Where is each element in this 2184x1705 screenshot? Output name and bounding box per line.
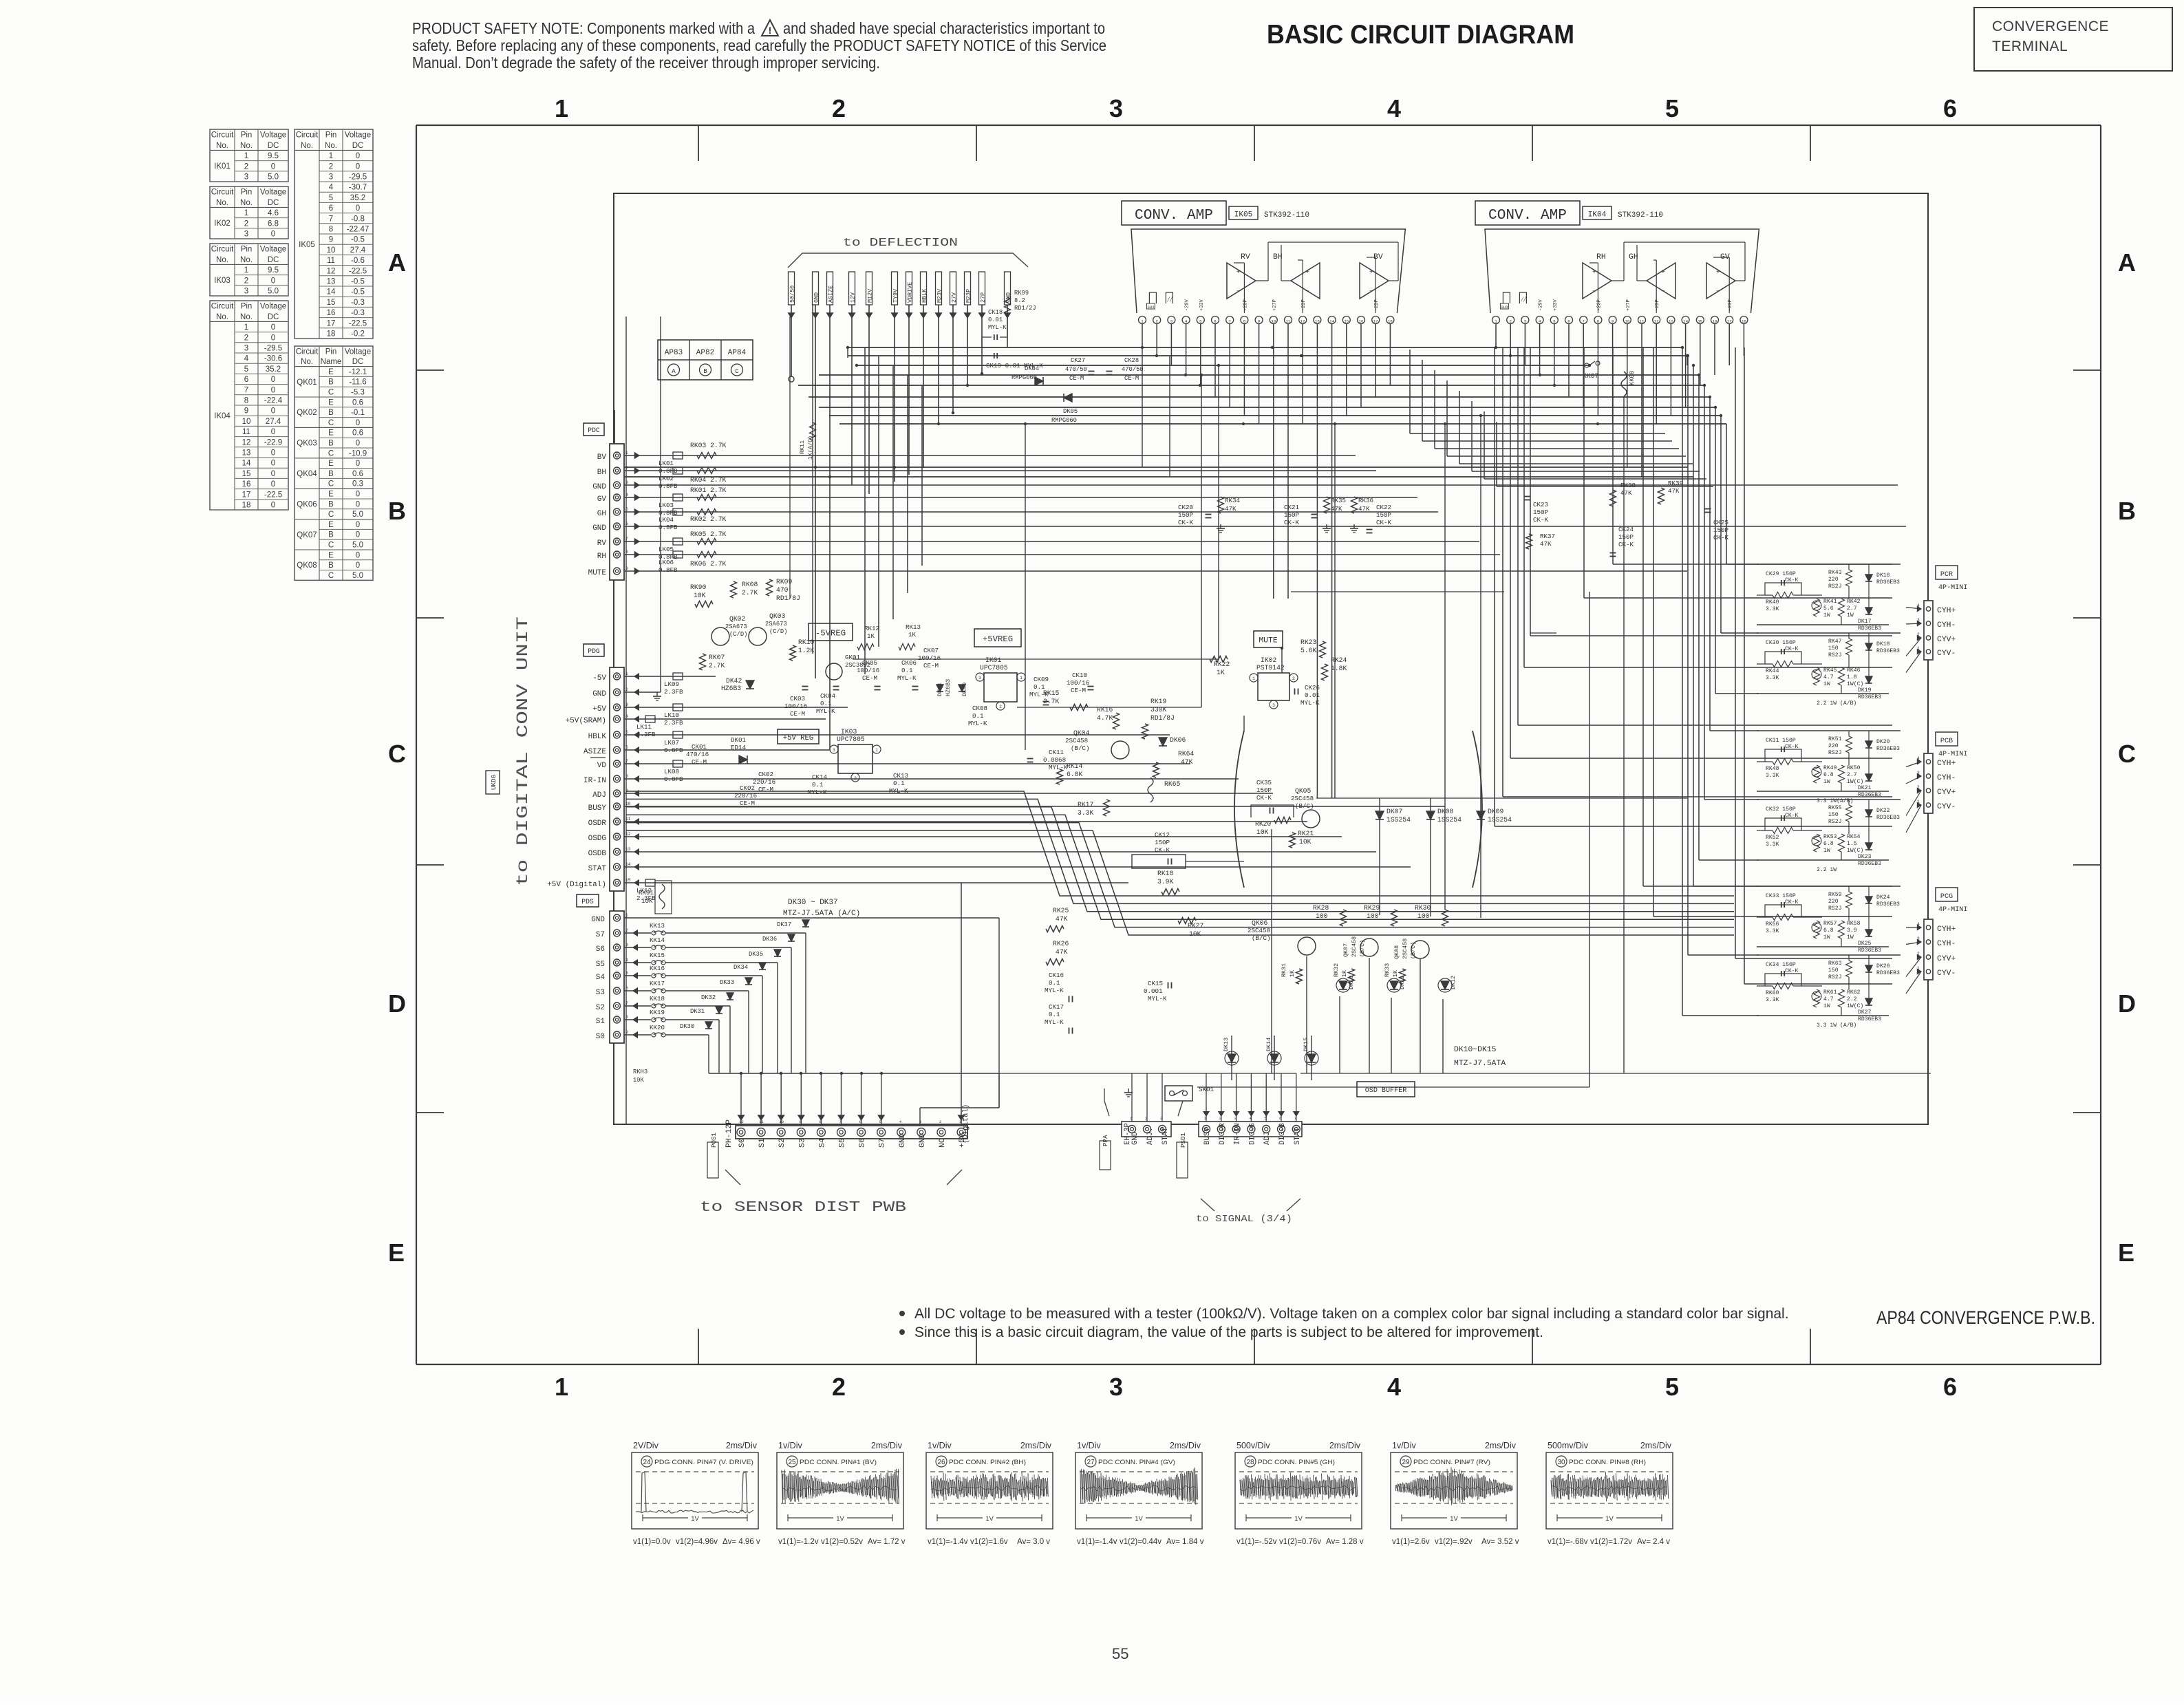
svg-text:0: 0 — [271, 502, 275, 510]
svg-text:RD36EB3: RD36EB3 — [1858, 861, 1881, 867]
svg-text:-5V: -5V — [592, 674, 606, 683]
svg-text:CE-M: CE-M — [862, 674, 877, 682]
svg-text:47K: 47K — [1056, 915, 1068, 923]
svg-text:PCR: PCR — [1940, 571, 1953, 579]
svg-text:DK19: DK19 — [1858, 687, 1872, 694]
svg-text:18: 18 — [327, 330, 336, 339]
svg-text:5: 5 — [1665, 1373, 1679, 1401]
svg-text:IK01: IK01 — [214, 162, 231, 171]
svg-text:TERMINAL: TERMINAL — [1992, 39, 2068, 54]
svg-text:0: 0 — [271, 470, 275, 478]
svg-text:RK61: RK61 — [1823, 989, 1837, 996]
svg-text:10: 10 — [779, 1119, 784, 1124]
svg-text:C: C — [328, 480, 334, 489]
svg-text:KK15: KK15 — [650, 952, 665, 959]
svg-text:-23P: -23P — [1596, 299, 1602, 311]
svg-text:1K: 1K — [1392, 969, 1399, 977]
svg-text:3.3 1W (A/B): 3.3 1W (A/B) — [1817, 1022, 1856, 1029]
svg-text:DK17: DK17 — [1858, 619, 1872, 625]
svg-text:470/50: 470/50 — [1065, 366, 1087, 373]
svg-text:6: 6 — [1943, 94, 1957, 122]
svg-text:RD36EB3: RD36EB3 — [1876, 970, 1900, 976]
svg-text:RK02 2.7K: RK02 2.7K — [690, 515, 727, 523]
svg-text:0.01: 0.01 — [988, 317, 1003, 323]
svg-text:3.3K: 3.3K — [1766, 675, 1779, 681]
svg-text:MUTE: MUTE — [1259, 637, 1278, 645]
svg-text:−: − — [1661, 288, 1665, 295]
svg-text:MYL-K: MYL-K — [808, 789, 827, 796]
svg-text:RH: RH — [1596, 253, 1606, 261]
svg-text:DK09: DK09 — [1488, 808, 1503, 815]
svg-text:1: 1 — [244, 323, 248, 332]
svg-text:+5V REG: +5V REG — [783, 734, 814, 742]
svg-text:0: 0 — [271, 277, 275, 285]
svg-text:v1(2)=0.52v: v1(2)=0.52v — [821, 1538, 863, 1546]
svg-text:0: 0 — [356, 491, 360, 499]
svg-text:0: 0 — [356, 204, 360, 213]
svg-text:RD36EB3: RD36EB3 — [1876, 746, 1900, 752]
svg-text:C: C — [328, 419, 334, 427]
svg-text:MYL-K: MYL-K — [1045, 987, 1064, 994]
svg-text:CK-K: CK-K — [1785, 899, 1799, 905]
svg-text:RK10: RK10 — [798, 639, 814, 646]
svg-text:1: 1 — [244, 266, 248, 275]
svg-text:CYH-: CYH- — [1937, 621, 1956, 630]
svg-text:KK20: KK20 — [650, 1024, 665, 1031]
svg-text:DK01: DK01 — [731, 736, 747, 744]
svg-text:CYV-: CYV- — [1937, 650, 1956, 658]
svg-text:RK07: RK07 — [709, 654, 725, 661]
svg-text:2: 2 — [854, 776, 857, 781]
svg-text:STAT: STAT — [1294, 1128, 1302, 1145]
svg-text:PRODUCT SAFETY NOTE: Component: PRODUCT SAFETY NOTE: Components marked w… — [412, 19, 755, 37]
svg-text:PDG: PDG — [588, 647, 600, 655]
svg-text:CK30 150P: CK30 150P — [1766, 640, 1796, 646]
svg-text:Δv= 4.96 v: Δv= 4.96 v — [722, 1538, 760, 1546]
svg-text:27V: 27V — [951, 292, 958, 303]
svg-text:(B/C): (B/C) — [1410, 942, 1417, 959]
svg-text:17: 17 — [1373, 319, 1378, 324]
svg-text:LK08: LK08 — [664, 768, 679, 775]
svg-text:0.8FB: 0.8FB — [664, 775, 683, 783]
svg-text:SU3: SU3 — [1501, 305, 1508, 310]
svg-text:DK13: DK13 — [1223, 1038, 1230, 1051]
svg-text:(C/D): (C/D) — [769, 628, 787, 635]
svg-text:2ms/Div: 2ms/Div — [726, 1441, 758, 1450]
svg-text:KK14: KK14 — [650, 936, 665, 944]
svg-text:DK15: DK15 — [1303, 1038, 1309, 1051]
svg-text:RD1/2J: RD1/2J — [1014, 305, 1036, 312]
svg-text:Circuit: Circuit — [296, 131, 319, 140]
svg-text:LK07: LK07 — [664, 739, 679, 747]
svg-text:QK03: QK03 — [297, 440, 317, 448]
svg-text:Voltage: Voltage — [260, 189, 286, 197]
svg-text:DK12: DK12 — [1450, 976, 1457, 989]
svg-text:CK-K: CK-K — [1618, 541, 1634, 548]
svg-text:2ms/Div: 2ms/Div — [871, 1441, 903, 1450]
svg-text:(B/C): (B/C) — [1295, 802, 1314, 810]
svg-text:v1(1)=0.0v: v1(1)=0.0v — [633, 1538, 671, 1546]
svg-text:RV: RV — [1241, 253, 1250, 261]
svg-text:C: C — [328, 449, 334, 458]
svg-text:Av= 1.72 v: Av= 1.72 v — [868, 1538, 906, 1546]
svg-text:1W(C): 1W(C) — [1847, 681, 1863, 687]
svg-text:+: + — [1369, 268, 1373, 276]
svg-text:Circuit: Circuit — [211, 131, 234, 140]
svg-text:AP82: AP82 — [696, 349, 714, 357]
svg-text:1: 1 — [1495, 319, 1497, 324]
svg-text:1.5: 1.5 — [1847, 841, 1857, 847]
svg-text:-0.8: -0.8 — [351, 215, 365, 223]
svg-text:2ms/Div: 2ms/Div — [1170, 1441, 1201, 1450]
svg-text:CE-M: CE-M — [1069, 375, 1084, 382]
svg-text:SU3: SU3 — [1147, 305, 1155, 310]
svg-text:RH: RH — [597, 553, 606, 561]
svg-text:0: 0 — [356, 561, 360, 570]
svg-text:RS2J: RS2J — [1828, 905, 1841, 912]
svg-text:10: 10 — [1271, 319, 1276, 324]
svg-text:0.1: 0.1 — [901, 667, 913, 674]
svg-text:5: 5 — [329, 194, 333, 202]
svg-text:RK47: RK47 — [1828, 639, 1842, 645]
svg-text:Av= 1.28 v: Av= 1.28 v — [1326, 1538, 1364, 1546]
svg-text:3: 3 — [978, 676, 981, 680]
svg-text:150P: 150P — [1533, 508, 1549, 516]
svg-text:QK05: QK05 — [1295, 787, 1311, 795]
svg-text:14: 14 — [1329, 319, 1334, 324]
svg-text:D: D — [2118, 989, 2136, 1018]
svg-text:0: 0 — [356, 460, 360, 468]
svg-text:8: 8 — [1597, 319, 1600, 324]
svg-text:RK35: RK35 — [1331, 497, 1346, 504]
svg-text:Pin: Pin — [241, 246, 253, 254]
svg-text:10: 10 — [242, 418, 251, 426]
svg-text:1SS254: 1SS254 — [1488, 816, 1512, 824]
svg-text:KK07: KK07 — [1583, 372, 1598, 380]
svg-text:2ms/Div: 2ms/Div — [1020, 1441, 1052, 1450]
svg-text:14: 14 — [1683, 319, 1688, 324]
svg-text:CK24: CK24 — [1618, 526, 1634, 533]
svg-text:−: − — [1592, 288, 1596, 295]
svg-text:RD36EB3: RD36EB3 — [1876, 579, 1900, 586]
svg-text:-22.5: -22.5 — [349, 267, 367, 275]
svg-text:-30.7: -30.7 — [349, 184, 367, 192]
svg-text:11: 11 — [1640, 319, 1645, 324]
svg-text:GH: GH — [597, 510, 606, 518]
svg-text:IK01: IK01 — [985, 656, 1001, 664]
svg-text:500mv/Div: 500mv/Div — [1548, 1441, 1589, 1450]
svg-text:RK21: RK21 — [1298, 830, 1314, 837]
svg-text:RK58: RK58 — [1847, 921, 1861, 927]
svg-text:220: 220 — [1828, 899, 1839, 905]
svg-text:RK12: RK12 — [864, 625, 879, 632]
svg-text:CK-K: CK-K — [1256, 794, 1272, 802]
svg-text:5.0: 5.0 — [352, 541, 363, 550]
svg-text:RK29: RK29 — [1364, 904, 1380, 912]
svg-text:CK-K: CK-K — [1785, 646, 1799, 652]
svg-text:RK44: RK44 — [1766, 668, 1779, 674]
svg-text:QK06: QK06 — [297, 500, 317, 508]
svg-text:PDC CONN. PIN#8 (RH): PDC CONN. PIN#8 (RH) — [1569, 1459, 1646, 1466]
svg-text:Since this is a basic circuit: Since this is a basic circuit diagram, t… — [914, 1325, 1543, 1340]
svg-text:MTZ-J7.5ATA: MTZ-J7.5ATA — [1454, 1060, 1506, 1068]
svg-text:4: 4 — [1539, 319, 1541, 324]
svg-text:DC: DC — [268, 199, 279, 207]
svg-text:CK-K: CK-K — [1155, 846, 1170, 854]
svg-text:DIG-R: DIG-R — [1219, 1123, 1227, 1145]
svg-text:No.: No. — [240, 199, 253, 207]
svg-text:+5VREG: +5VREG — [983, 634, 1013, 644]
svg-text:DK18: DK18 — [1876, 641, 1890, 647]
svg-text:CK01: CK01 — [692, 743, 707, 751]
svg-text:-29V: -29V — [1185, 299, 1190, 311]
svg-text:0.1: 0.1 — [820, 700, 832, 707]
svg-text:RD36EB3: RD36EB3 — [1876, 815, 1900, 821]
svg-text:13: 13 — [1669, 319, 1673, 324]
svg-text:10: 10 — [327, 246, 336, 255]
svg-text:RK26: RK26 — [1053, 940, 1069, 947]
svg-text:4.7K: 4.7K — [1097, 714, 1113, 722]
svg-text:RS2J: RS2J — [1828, 583, 1841, 590]
svg-text:0.6: 0.6 — [352, 398, 363, 407]
svg-text:RK42: RK42 — [1847, 599, 1861, 605]
svg-text:KK18: KK18 — [650, 995, 665, 1002]
svg-text:2SA673: 2SA673 — [725, 623, 747, 630]
svg-text:CK34 150P: CK34 150P — [1766, 962, 1796, 968]
svg-text:220/16: 220/16 — [734, 792, 757, 800]
svg-text:0.8FB: 0.8FB — [664, 747, 683, 754]
svg-text:RK91: RK91 — [639, 889, 654, 897]
svg-text:1: 1 — [555, 1373, 568, 1401]
svg-text:RK19: RK19 — [1150, 698, 1166, 705]
svg-text:3: 3 — [244, 288, 248, 296]
svg-text:2ms/Div: 2ms/Div — [1640, 1441, 1672, 1450]
svg-text:C: C — [2118, 740, 2136, 768]
svg-text:4: 4 — [1387, 1373, 1401, 1401]
svg-text:v1(1)=2.6v: v1(1)=2.6v — [1392, 1538, 1430, 1546]
svg-text:IK05: IK05 — [299, 241, 315, 249]
svg-text:v1(1)=-.68v: v1(1)=-.68v — [1548, 1538, 1588, 1546]
svg-text:CE-M: CE-M — [1124, 375, 1139, 382]
svg-text:1: 1 — [329, 152, 333, 160]
svg-text:1V: 1V — [1135, 1515, 1143, 1523]
svg-text:DK10: DK10 — [1348, 976, 1355, 989]
svg-text:RS2J: RS2J — [1828, 652, 1841, 658]
svg-text:v1(1)=-1.2v: v1(1)=-1.2v — [778, 1538, 819, 1546]
svg-text:DK27: DK27 — [1858, 1009, 1872, 1016]
svg-text:150: 150 — [1828, 967, 1839, 974]
svg-text:to DIGITAL CONV UNIT: to DIGITAL CONV UNIT — [514, 616, 532, 886]
svg-text:CE-M: CE-M — [790, 710, 805, 718]
svg-text:BUSY: BUSY — [588, 804, 607, 813]
svg-text:QK01: QK01 — [297, 378, 317, 387]
svg-text:QK02: QK02 — [297, 409, 317, 417]
svg-text:500v/Div: 500v/Div — [1236, 1441, 1270, 1450]
svg-text:-23P: -23P — [1655, 299, 1660, 311]
svg-text:470/50: 470/50 — [1122, 366, 1144, 373]
svg-text:RMPG060: RMPG060 — [1051, 417, 1077, 424]
svg-text:RK40: RK40 — [1766, 599, 1779, 605]
svg-text:RK54: RK54 — [1847, 834, 1861, 840]
svg-text:IR-IN: IR-IN — [1234, 1123, 1242, 1145]
svg-text:5: 5 — [1665, 94, 1679, 122]
svg-text:RK14: RK14 — [1067, 762, 1082, 770]
svg-text:RK17: RK17 — [1078, 801, 1093, 808]
svg-text:2.7: 2.7 — [1847, 605, 1857, 612]
svg-text:0.1: 0.1 — [893, 780, 905, 787]
svg-text:ASIZE: ASIZE — [584, 748, 606, 756]
svg-text:5.0: 5.0 — [268, 288, 279, 296]
svg-text:4: 4 — [899, 1119, 902, 1124]
svg-text:DC: DC — [352, 358, 364, 366]
svg-text:CK-K: CK-K — [1284, 519, 1300, 526]
svg-text:Manual. Don’t degrade the safe: Manual. Don’t degrade the safety of the … — [412, 54, 880, 72]
svg-text:PDG CONN. PIN#7 (V. DRIVE): PDG CONN. PIN#7 (V. DRIVE) — [654, 1459, 753, 1466]
svg-text:S4: S4 — [818, 1138, 826, 1148]
svg-text:DK35: DK35 — [749, 951, 763, 958]
svg-text:1W: 1W — [1823, 934, 1830, 941]
svg-text:-22.5: -22.5 — [264, 491, 282, 499]
svg-text:5.0: 5.0 — [352, 572, 363, 580]
svg-text:CYH+: CYH+ — [1937, 925, 1956, 934]
svg-text:11: 11 — [327, 257, 335, 265]
svg-text:100: 100 — [1316, 912, 1328, 920]
svg-text:GND: GND — [592, 524, 606, 533]
svg-text:to SENSOR DIST PWB: to SENSOR DIST PWB — [700, 1199, 906, 1216]
svg-text:B: B — [388, 497, 406, 525]
svg-text:1W(C): 1W(C) — [1847, 1003, 1863, 1009]
svg-text:B: B — [2118, 497, 2136, 525]
svg-text:8: 8 — [329, 226, 333, 234]
svg-text:RK34: RK34 — [1225, 497, 1241, 504]
svg-text:NC: NC — [939, 1138, 947, 1148]
svg-text:27P: 27P — [980, 292, 987, 303]
svg-text:KK16: KK16 — [650, 965, 665, 972]
svg-text:12: 12 — [327, 267, 336, 275]
svg-text:RD1/8J: RD1/8J — [1150, 714, 1175, 722]
svg-text:CK09: CK09 — [1034, 676, 1049, 683]
svg-text:2: 2 — [329, 162, 333, 171]
svg-text:1.8: 1.8 — [1847, 674, 1857, 680]
svg-text:-30.6: -30.6 — [264, 355, 282, 363]
svg-text:No.: No. — [240, 313, 253, 321]
svg-text:RMPG060: RMPG060 — [1011, 374, 1037, 381]
svg-text:7: 7 — [329, 215, 333, 223]
svg-text:CYV-: CYV- — [1937, 803, 1956, 811]
svg-text:v1(2)=0.44v: v1(2)=0.44v — [1120, 1538, 1161, 1546]
svg-text:MYL-K: MYL-K — [1049, 764, 1068, 771]
svg-text:1.8K: 1.8K — [1331, 665, 1347, 672]
svg-text:CK13: CK13 — [893, 772, 908, 780]
svg-text:CYV+: CYV+ — [1937, 636, 1956, 644]
svg-text:2: 2 — [939, 1119, 942, 1124]
svg-text:+: + — [1661, 268, 1665, 276]
svg-text:No.: No. — [240, 142, 253, 150]
svg-text:2: 2 — [1292, 676, 1295, 681]
svg-text:150P: 150P — [1376, 511, 1392, 519]
svg-text:POS1: POS1 — [710, 1132, 718, 1148]
svg-text:RK20: RK20 — [1255, 820, 1271, 828]
svg-text:MYL-K: MYL-K — [1045, 1018, 1064, 1026]
svg-text:27.4: 27.4 — [350, 246, 366, 255]
svg-text:2ms/Div: 2ms/Div — [1485, 1441, 1517, 1450]
svg-text:0.6: 0.6 — [352, 429, 363, 438]
svg-text:Circuit: Circuit — [211, 303, 234, 311]
svg-text:1W: 1W — [1823, 612, 1830, 619]
svg-text:CK15: CK15 — [1148, 980, 1163, 987]
svg-text:4P-MINI: 4P-MINI — [1938, 584, 1967, 592]
svg-text:470/16: 470/16 — [686, 751, 709, 758]
svg-text:S7: S7 — [879, 1138, 887, 1148]
svg-text:CK-K: CK-K — [1785, 744, 1799, 750]
svg-text:13: 13 — [242, 449, 251, 458]
svg-text:3.3K: 3.3K — [1766, 773, 1779, 779]
svg-text:2: 2 — [832, 94, 846, 122]
svg-text:PH-12P: PH-12P — [725, 1119, 734, 1148]
svg-text:GND: GND — [591, 916, 605, 924]
svg-text:DK16: DK16 — [1876, 572, 1890, 579]
svg-text:-0.5: -0.5 — [351, 236, 365, 244]
svg-text:150P: 150P — [1618, 533, 1634, 541]
svg-text:CYV+: CYV+ — [1937, 789, 1956, 797]
svg-text:CYH-: CYH- — [1937, 774, 1956, 782]
svg-text:4.7: 4.7 — [1823, 996, 1834, 1002]
svg-text:1: 1 — [875, 748, 878, 753]
svg-text:MTZ-J7.5ATA (A/C): MTZ-J7.5ATA (A/C) — [783, 910, 860, 918]
svg-text:16: 16 — [242, 480, 251, 489]
svg-text:17: 17 — [242, 491, 251, 499]
svg-text:1v/Div: 1v/Div — [1392, 1441, 1416, 1450]
svg-text:IK04: IK04 — [1588, 211, 1607, 219]
svg-text:STK392-110: STK392-110 — [1264, 211, 1309, 219]
svg-text:4.7: 4.7 — [1823, 674, 1834, 680]
svg-text:OSDR: OSDR — [588, 819, 607, 828]
svg-text:3.3K: 3.3K — [1766, 928, 1779, 934]
svg-text:No.: No. — [216, 142, 228, 150]
svg-text:RK45: RK45 — [1823, 667, 1837, 674]
svg-text:5.6K: 5.6K — [1300, 647, 1316, 654]
svg-text:27.4: 27.4 — [266, 418, 281, 426]
svg-text:12: 12 — [1300, 319, 1305, 324]
svg-text:4: 4 — [244, 355, 249, 363]
svg-text:ADJ: ADJ — [1263, 1132, 1272, 1145]
svg-text:1W: 1W — [1847, 612, 1854, 619]
svg-text:-12.1: -12.1 — [349, 368, 367, 376]
svg-text:11: 11 — [242, 428, 250, 436]
svg-text:-23P: -23P — [1374, 299, 1380, 311]
svg-text:CONV. AMP: CONV. AMP — [1135, 207, 1213, 224]
svg-text:RK08: RK08 — [742, 581, 758, 588]
svg-text:2SA673: 2SA673 — [765, 621, 787, 628]
svg-text:RK25: RK25 — [1053, 907, 1069, 914]
svg-text:29: 29 — [1402, 1459, 1410, 1466]
svg-text:HZ6B3: HZ6B3 — [945, 679, 952, 696]
svg-text:E: E — [328, 491, 334, 499]
svg-text:HBLK: HBLK — [921, 288, 928, 303]
svg-text:8: 8 — [1243, 319, 1246, 324]
svg-text:15: 15 — [242, 470, 251, 478]
svg-text:RK06 2.7K: RK06 2.7K — [690, 560, 727, 568]
svg-text:RK23: RK23 — [1300, 639, 1316, 646]
svg-text:CK03: CK03 — [790, 695, 805, 703]
svg-text:RK64: RK64 — [1178, 750, 1194, 758]
svg-text:6.8: 6.8 — [1823, 927, 1834, 934]
svg-text:RK09: RK09 — [776, 578, 792, 586]
svg-text:100/16: 100/16 — [857, 667, 879, 674]
svg-text:v1(2)=.92v: v1(2)=.92v — [1435, 1538, 1473, 1546]
svg-text:RK38: RK38 — [1620, 482, 1636, 489]
svg-text:Circuit: Circuit — [211, 246, 234, 254]
